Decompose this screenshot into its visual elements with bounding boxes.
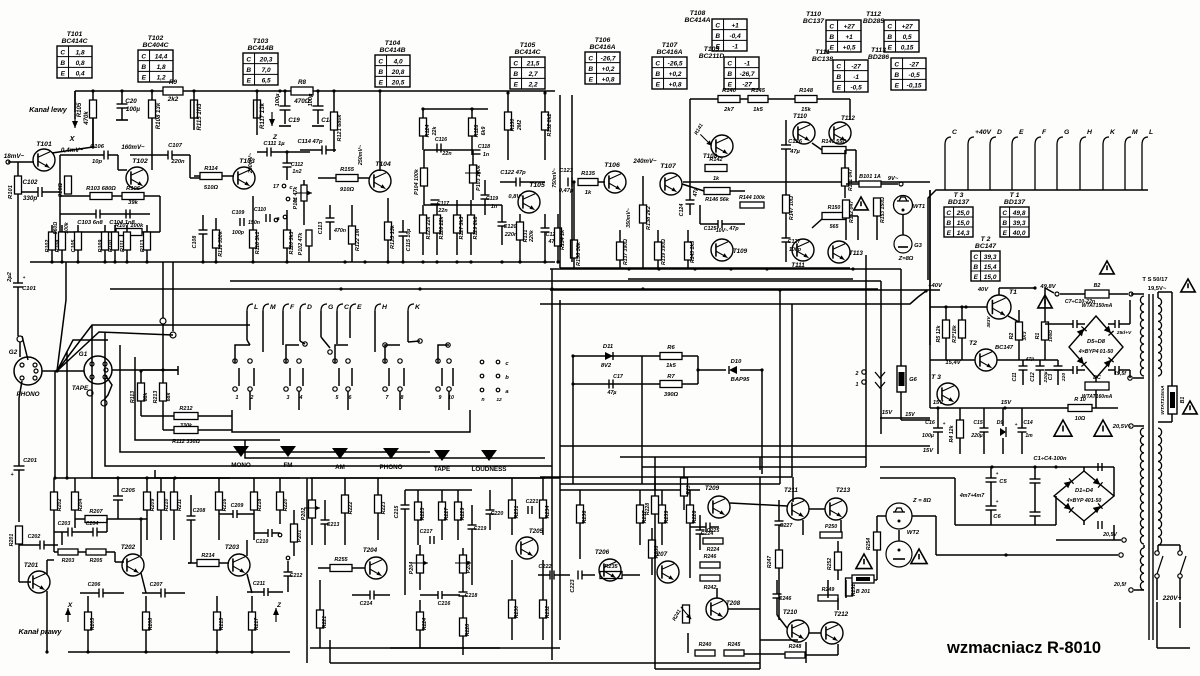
svg-text:R239: R239 xyxy=(664,511,670,524)
warning triangle xfmr2 xyxy=(1183,401,1197,414)
transistor T205 xyxy=(516,537,538,559)
arrow X left xyxy=(74,91,76,112)
bridge D5-D8 xyxy=(1069,316,1123,378)
resistor R124 22k xyxy=(420,118,427,136)
svg-text:C5: C5 xyxy=(999,479,1007,485)
svg-text:C12: C12 xyxy=(1030,372,1036,382)
capacitor C115 10u xyxy=(399,231,408,233)
svg-text:R207: R207 xyxy=(89,509,103,515)
svg-text:C211: C211 xyxy=(253,581,265,587)
svg-text:R254: R254 xyxy=(866,538,872,550)
switch upper circles xyxy=(303,342,307,346)
svg-text:+: + xyxy=(23,276,26,281)
svg-text:+0,8: +0,8 xyxy=(669,82,682,89)
capacitor C15 220u xyxy=(980,427,989,429)
svg-text:R225: R225 xyxy=(420,507,426,521)
resistor R125 22k xyxy=(420,215,427,233)
wire br frame xyxy=(654,477,656,490)
svg-text:+27: +27 xyxy=(902,23,913,30)
svg-text:C: C xyxy=(887,23,892,30)
svg-text:R212: R212 xyxy=(179,406,192,412)
capacitor C211 xyxy=(263,588,265,596)
wire nest1 xyxy=(92,325,230,478)
pot P101 47k xyxy=(301,185,307,201)
svg-text:T 3: T 3 xyxy=(954,192,964,199)
svg-text:9: 9 xyxy=(439,395,442,401)
svg-text:10V~: 10V~ xyxy=(716,228,729,234)
svg-text:R218: R218 xyxy=(257,499,263,512)
wire bus y268 xyxy=(560,267,850,269)
svg-text:R228: R228 xyxy=(465,624,471,636)
svg-text:100µ: 100µ xyxy=(308,93,314,107)
resistor R105 xyxy=(90,100,97,118)
svg-text:Kanał prawy: Kanał prawy xyxy=(19,627,63,636)
capacitor C5 xyxy=(986,477,997,479)
svg-text:R214: R214 xyxy=(201,553,214,559)
svg-text:0,4: 0,4 xyxy=(76,71,85,78)
resistor R143 1k5 xyxy=(685,242,692,260)
svg-text:R231: R231 xyxy=(514,506,520,519)
fuse BC xyxy=(1085,382,1109,390)
svg-text:WT1: WT1 xyxy=(913,204,925,210)
capacitor C12 220u xyxy=(1036,365,1045,367)
svg-text:BC414A: BC414A xyxy=(684,17,710,24)
svg-text:Z = 8Ω: Z = 8Ω xyxy=(912,498,931,504)
transistor T213 xyxy=(825,498,847,520)
svg-text:R137 390Ω: R137 390Ω xyxy=(623,239,629,265)
svg-text:910Ω: 910Ω xyxy=(58,182,64,197)
svg-text:100p: 100p xyxy=(232,230,245,236)
svg-text:C205: C205 xyxy=(121,488,136,494)
svg-text:WTAT150mA: WTAT150mA xyxy=(1082,303,1113,309)
selector PHONO xyxy=(383,448,399,459)
svg-text:220V~: 220V~ xyxy=(1162,595,1182,602)
svg-text:T203: T203 xyxy=(225,544,240,551)
capacitor C203 xyxy=(67,528,69,537)
svg-text:330p: 330p xyxy=(23,195,38,202)
selector MONO xyxy=(233,446,249,457)
svg-text:R142: R142 xyxy=(709,157,722,163)
capacitor C227 xyxy=(775,520,784,522)
resistor R118 xyxy=(250,230,257,248)
wire nest2 xyxy=(105,332,552,466)
svg-text:R3*18k: R3*18k xyxy=(952,324,958,343)
capacitor C107 xyxy=(167,151,169,160)
svg-text:C: C xyxy=(727,60,732,67)
svg-text:T110: T110 xyxy=(806,11,821,18)
svg-text:TAPE: TAPE xyxy=(72,385,89,392)
svg-text:G3: G3 xyxy=(914,243,923,249)
resistor B7 330 xyxy=(660,381,682,388)
capacitor C104 xyxy=(125,210,127,219)
svg-text:n: n xyxy=(481,397,485,403)
svg-text:T109: T109 xyxy=(733,248,748,255)
svg-text:X: X xyxy=(67,602,73,609)
svg-text:R213: R213 xyxy=(153,391,159,404)
svg-text:R101: R101 xyxy=(8,185,14,199)
svg-text:B: B xyxy=(513,71,518,78)
transistor T207b xyxy=(657,561,679,583)
svg-text:C217: C217 xyxy=(420,529,434,535)
svg-text:C105: C105 xyxy=(71,239,77,253)
arrow X bottom xyxy=(67,608,69,622)
resistor R245 xyxy=(724,650,744,656)
capacitor C206 xyxy=(98,589,100,598)
svg-text:470n: 470n xyxy=(333,228,347,234)
svg-text:BC147: BC147 xyxy=(975,243,997,250)
resistor R131 220k xyxy=(517,222,524,240)
svg-text:R153 150Ω: R153 150Ω xyxy=(880,197,886,223)
svg-text:R248: R248 xyxy=(789,644,802,650)
svg-text:T204: T204 xyxy=(363,547,378,554)
svg-text:B: B xyxy=(655,71,660,78)
svg-text:R132 8k2: R132 8k2 xyxy=(547,113,553,136)
pot P204 xyxy=(417,555,424,573)
svg-text:E: E xyxy=(895,83,900,90)
wire hook drops xyxy=(246,325,248,340)
svg-text:R130: R130 xyxy=(510,119,516,132)
capacitor C110 xyxy=(265,214,267,222)
svg-text:P203: P203 xyxy=(466,561,472,573)
wire xyxy=(92,91,94,100)
svg-text:R221: R221 xyxy=(322,616,328,628)
transformer secondary top xyxy=(1140,296,1144,304)
node circles right cba xyxy=(480,360,484,364)
circle G3 xyxy=(894,235,912,253)
mains switch xyxy=(1155,551,1159,555)
svg-text:17: 17 xyxy=(273,184,280,190)
svg-text:C: C xyxy=(836,63,841,70)
diode D11 6V2 xyxy=(605,352,613,360)
svg-text:1k5: 1k5 xyxy=(753,107,763,113)
wire br verticals xyxy=(689,545,691,578)
resistor R226 xyxy=(687,505,694,523)
svg-text:100k: 100k xyxy=(64,221,70,233)
svg-text:6k9: 6k9 xyxy=(481,127,487,136)
svg-text:B: B xyxy=(946,220,951,227)
svg-text:-0,5: -0,5 xyxy=(908,72,920,79)
svg-text:C208: C208 xyxy=(193,508,206,514)
resistor R8 470 xyxy=(291,87,313,95)
svg-text:T113: T113 xyxy=(871,47,886,54)
svg-text:BAP95: BAP95 xyxy=(731,377,750,383)
resistor R223 xyxy=(375,495,382,513)
svg-text:C120: C120 xyxy=(503,224,516,230)
resistor R104 xyxy=(59,232,66,250)
capacitor C225 xyxy=(705,523,707,532)
svg-text:B: B xyxy=(1002,220,1007,227)
svg-text:R227: R227 xyxy=(444,507,450,521)
wire lat y446 xyxy=(560,445,930,447)
svg-text:P250: P250 xyxy=(825,524,837,530)
svg-text:R242: R242 xyxy=(704,585,717,591)
svg-text:C203: C203 xyxy=(58,521,71,527)
transistor T108 xyxy=(711,135,733,157)
svg-text:C225: C225 xyxy=(707,528,721,534)
svg-text:R122 1M: R122 1M xyxy=(355,228,361,251)
resistor R238 xyxy=(649,540,656,558)
svg-text:R135: R135 xyxy=(581,171,596,177)
svg-text:T109: T109 xyxy=(704,46,720,53)
wire mid h2 xyxy=(573,383,660,385)
svg-text:BC414B: BC414B xyxy=(247,45,273,52)
svg-text:T S 50/17: T S 50/17 xyxy=(1142,277,1167,283)
svg-text:R140: R140 xyxy=(722,88,737,94)
resistor R115 xyxy=(191,100,198,118)
fuse B2 top xyxy=(1085,290,1109,298)
capacitor C102 xyxy=(37,187,39,197)
svg-text:R8: R8 xyxy=(298,79,307,86)
pot P201 xyxy=(291,524,298,542)
svg-text:R5 12k: R5 12k xyxy=(936,324,942,342)
resistor C105 xyxy=(75,232,82,250)
resistor R220 xyxy=(277,492,284,510)
resistor R106 39k xyxy=(122,193,144,200)
svg-text:+1: +1 xyxy=(845,34,853,41)
svg-text:R150: R150 xyxy=(828,205,841,211)
resistor R114 510 xyxy=(200,173,222,180)
transistor T2 mid xyxy=(975,349,997,371)
svg-text:2µ2: 2µ2 xyxy=(7,271,13,283)
connector G1 TAPE xyxy=(84,356,112,384)
capacitor C116b 22n xyxy=(436,144,438,153)
speaker WT1 xyxy=(894,196,913,215)
svg-text:T202: T202 xyxy=(121,544,136,551)
capacitor C220 xyxy=(486,509,495,511)
wire long bus A xyxy=(551,269,553,660)
svg-text:R141: R141 xyxy=(693,123,704,137)
svg-text:2M2: 2M2 xyxy=(517,120,523,131)
wire bm bottom xyxy=(310,647,560,649)
svg-text:R217: R217 xyxy=(254,617,260,630)
resistor R146 56k xyxy=(704,188,730,195)
svg-text:P102 47k: P102 47k xyxy=(298,232,304,256)
svg-text:B: B xyxy=(588,66,593,73)
resistor R216 xyxy=(216,492,223,510)
transistor T110 xyxy=(793,122,815,144)
svg-text:R223: R223 xyxy=(381,502,387,515)
svg-text:C20: C20 xyxy=(125,98,137,105)
svg-text:G: G xyxy=(1064,129,1070,136)
svg-text:22k: 22k xyxy=(432,126,438,137)
resistor R110 xyxy=(112,232,119,250)
warning triangle xfmr xyxy=(1181,279,1195,292)
svg-text:100µ: 100µ xyxy=(922,433,934,439)
wire T104 col xyxy=(379,91,381,171)
svg-text:MONO: MONO xyxy=(231,462,251,469)
svg-text:R241: R241 xyxy=(671,609,682,623)
svg-text:+: + xyxy=(943,422,946,427)
resistor R4 12k xyxy=(957,420,964,438)
svg-text:P202: P202 xyxy=(301,508,307,520)
svg-text:R127 3k3: R127 3k3 xyxy=(459,216,465,239)
resistor R204 xyxy=(72,492,79,510)
resistor R254 xyxy=(874,532,881,550)
resistor R214 xyxy=(197,560,219,567)
svg-text:C118: C118 xyxy=(478,144,490,150)
wire br bottom xyxy=(655,668,760,670)
capacitor C204 xyxy=(92,528,94,537)
resistor R251 xyxy=(846,578,853,596)
transistor T113 xyxy=(828,241,850,263)
svg-text:15V: 15V xyxy=(923,448,934,454)
svg-text:220µ: 220µ xyxy=(970,433,982,439)
svg-text:T102: T102 xyxy=(132,158,148,165)
svg-text:4×BYP 401-50: 4×BYP 401-50 xyxy=(1066,498,1102,504)
pot P103 100k xyxy=(470,165,477,183)
svg-text:BC416A: BC416A xyxy=(656,49,682,56)
svg-text:R240: R240 xyxy=(699,642,712,648)
svg-text:0,8V~: 0,8V~ xyxy=(508,194,524,200)
resistor R101 xyxy=(15,176,22,194)
svg-text:565: 565 xyxy=(830,224,840,230)
warning triangle mid xyxy=(854,197,868,210)
svg-text:R121 680k: R121 680k xyxy=(337,114,343,142)
resistor R151 xyxy=(842,168,849,186)
svg-text:C114 47p: C114 47p xyxy=(297,139,322,145)
wire vdiv2 xyxy=(571,95,573,262)
svg-text:R155: R155 xyxy=(340,167,355,173)
svg-text:47p: 47p xyxy=(1025,356,1034,362)
svg-text:P104 100k: P104 100k xyxy=(414,168,420,195)
svg-text:+40V: +40V xyxy=(975,129,993,136)
wire right v930 xyxy=(929,190,931,306)
resistor R202 xyxy=(51,492,58,510)
wire bl mesh xyxy=(53,528,55,552)
svg-text:R7: R7 xyxy=(667,374,675,380)
svg-text:R228: R228 xyxy=(645,503,651,515)
svg-text:C14: C14 xyxy=(1023,420,1033,426)
wire 15V left stub xyxy=(880,417,930,419)
svg-text:12: 12 xyxy=(496,397,502,403)
svg-text:7: 7 xyxy=(386,395,390,401)
svg-text:R115 1N3: R115 1N3 xyxy=(196,103,203,131)
resistor R10 10 xyxy=(1068,405,1092,412)
svg-text:R111: R111 xyxy=(120,240,126,252)
svg-text:BD285: BD285 xyxy=(863,18,884,25)
svg-text:C207: C207 xyxy=(150,582,164,588)
svg-text:5: 5 xyxy=(336,395,340,401)
svg-text:B: B xyxy=(894,72,899,79)
svg-text:383V: 383V xyxy=(986,316,992,328)
svg-text:C223: C223 xyxy=(570,579,576,592)
svg-text:B: B xyxy=(60,60,65,67)
svg-text:20,8: 20,8 xyxy=(391,69,405,76)
resistor R208 xyxy=(143,612,150,630)
svg-text:BC: BC xyxy=(1093,375,1101,381)
speaker WT2 xyxy=(886,503,912,529)
svg-text:R220: R220 xyxy=(283,499,289,512)
svg-text:G2: G2 xyxy=(9,349,18,356)
svg-text:15V: 15V xyxy=(933,400,944,406)
resistor R135 1k xyxy=(578,179,598,186)
capacitor C113 xyxy=(326,217,335,219)
wire tone top xyxy=(424,149,473,151)
svg-text:910Ω: 910Ω xyxy=(340,187,355,193)
wire t2 row xyxy=(930,359,975,361)
wire midh y279 xyxy=(628,278,853,280)
capacitor C127 100p xyxy=(782,237,791,239)
capacitor C101 xyxy=(13,282,23,284)
svg-text:T113: T113 xyxy=(849,250,863,257)
wire switch outline xyxy=(232,410,470,432)
svg-text:R118 5k1: R118 5k1 xyxy=(255,232,261,255)
selector LOUDNESS xyxy=(481,450,497,461)
svg-text:1n: 1n xyxy=(483,152,490,158)
svg-text:+0,2: +0,2 xyxy=(602,66,615,73)
svg-text:BC414C: BC414C xyxy=(61,38,87,45)
warning triangle low1 xyxy=(1054,420,1072,436)
svg-text:R208: R208 xyxy=(148,618,154,630)
transistor T201 xyxy=(28,571,50,593)
svg-text:C6: C6 xyxy=(993,514,1001,520)
svg-text:R224: R224 xyxy=(707,547,720,553)
headphone jack xyxy=(862,370,866,374)
capacitor C106 xyxy=(103,151,105,160)
wire 15V rail left xyxy=(901,419,930,421)
capacitor C3b xyxy=(1030,511,1041,513)
capacitor C119 1n xyxy=(481,194,490,196)
resistor R235 xyxy=(600,572,622,579)
svg-text:R144 100k: R144 100k xyxy=(739,195,766,201)
svg-text:2: 2 xyxy=(855,371,859,377)
wire tbar xyxy=(177,366,179,375)
resistor R144 100k xyxy=(740,202,764,208)
fuse B201 xyxy=(852,575,874,583)
resistor R207 xyxy=(85,516,107,523)
svg-text:+0,8: +0,8 xyxy=(602,77,615,84)
resistor R120 xyxy=(284,230,291,248)
transistor T109 bottom xyxy=(711,239,733,261)
capacitor C201 xyxy=(14,465,25,467)
resistor B101 1A xyxy=(859,181,881,187)
wire xyxy=(358,177,370,179)
resistor R213 68k xyxy=(160,383,167,401)
svg-text:C102: C102 xyxy=(22,179,38,186)
svg-text:R209: R209 xyxy=(150,499,156,512)
svg-text:E: E xyxy=(888,45,893,52)
wire top right bus xyxy=(690,98,718,100)
transistor T106 xyxy=(604,171,626,193)
warning tri br xyxy=(856,554,872,569)
svg-text:C124: C124 xyxy=(679,204,685,217)
capacitor C103 xyxy=(95,210,97,219)
svg-text:C107: C107 xyxy=(168,143,183,149)
svg-text:C: C xyxy=(588,55,593,62)
resistor R224b xyxy=(703,538,723,544)
svg-text:FM: FM xyxy=(283,462,292,469)
resistor R231 xyxy=(509,500,516,518)
resistor R140 2k7 xyxy=(718,96,740,103)
svg-text:250mV~: 250mV~ xyxy=(358,145,364,166)
svg-text:BC137: BC137 xyxy=(803,18,825,25)
svg-text:19,5V~: 19,5V~ xyxy=(1148,286,1167,292)
diode D9 zener xyxy=(1000,428,1006,436)
svg-text:AM: AM xyxy=(335,464,345,471)
svg-text:T205: T205 xyxy=(529,528,544,535)
svg-text:BC404C: BC404C xyxy=(142,42,168,49)
svg-text:+: + xyxy=(996,500,999,505)
svg-text:R116 330k: R116 330k xyxy=(218,230,224,257)
resistor R132 8k2 xyxy=(542,112,549,130)
svg-text:C1÷C4-100n: C1÷C4-100n xyxy=(1033,456,1067,462)
svg-text:40V: 40V xyxy=(977,287,989,293)
capacitor C124 47u xyxy=(686,199,695,201)
svg-text:T208: T208 xyxy=(726,600,741,607)
svg-text:T 1: T 1 xyxy=(1010,192,1020,199)
svg-text:T2: T2 xyxy=(969,340,977,347)
svg-text:R9: R9 xyxy=(169,79,178,86)
